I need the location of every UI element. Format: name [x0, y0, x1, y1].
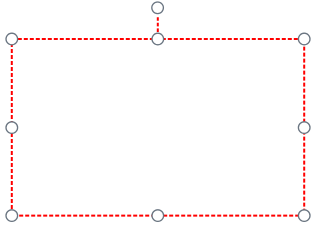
middle-left handle	[6, 122, 18, 134]
bottom-right handle	[298, 210, 310, 222]
top-right handle	[298, 33, 310, 45]
selection marquee (dashed red border)	[12, 39, 304, 216]
bottom-center handle	[152, 210, 164, 222]
top-left handle	[6, 33, 18, 45]
rotation handle	[152, 2, 164, 14]
bottom-left handle	[6, 210, 18, 222]
middle-right handle	[298, 122, 310, 134]
rotation connector line	[157, 17, 159, 32]
top-center handle	[152, 33, 164, 45]
